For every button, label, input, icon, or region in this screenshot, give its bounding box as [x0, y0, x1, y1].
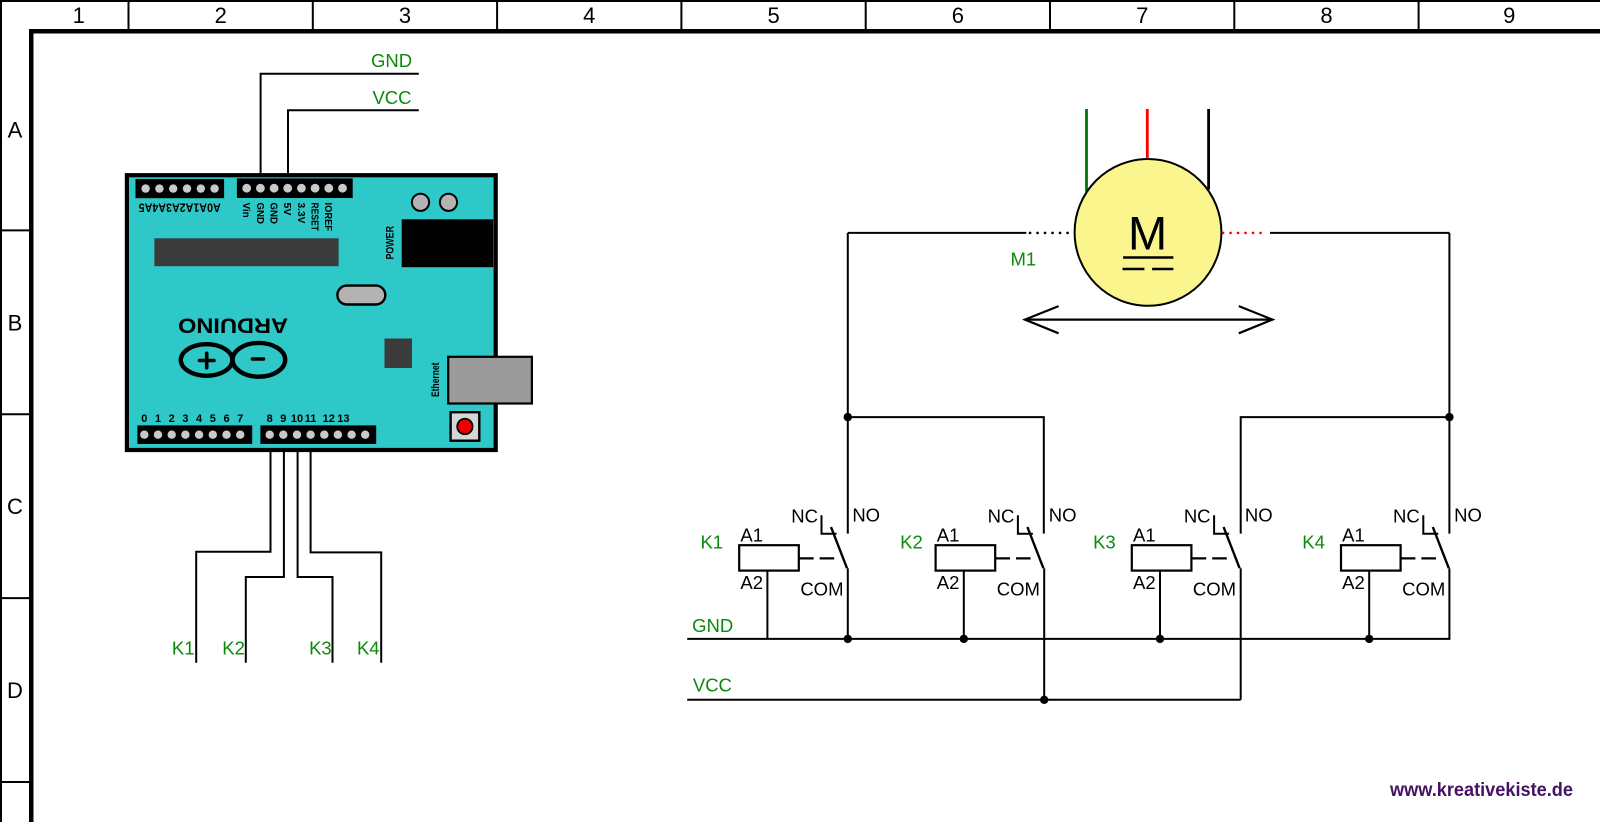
svg-text:M1: M1 [1010, 248, 1036, 269]
Arduino crystal (gray pill) [337, 286, 385, 305]
relay K3 [1093, 505, 1273, 639]
svg-text:D: D [7, 678, 23, 703]
motor underline solid [1123, 256, 1173, 258]
svg-text:NO: NO [1049, 505, 1077, 526]
relay K4 actuator dashed link [1401, 557, 1438, 559]
Arduino infinity logo [181, 343, 285, 377]
K3 COM wire to VCC end [1240, 568, 1242, 700]
svg-text:A2: A2 [740, 572, 763, 593]
svg-text:1: 1 [73, 3, 85, 28]
svg-text:1: 1 [155, 413, 161, 425]
svg-text:NO: NO [1454, 505, 1482, 526]
Arduino indicator pads (2 gray circles) [412, 194, 429, 211]
relay K2 coil [936, 545, 996, 570]
motor underline dashed [1123, 268, 1174, 270]
svg-text:3: 3 [182, 413, 188, 425]
reset button S1 [451, 412, 480, 441]
Arduino socket strip (dark) [154, 238, 338, 266]
svg-text:8: 8 [267, 413, 273, 425]
svg-text:A1: A1 [740, 525, 763, 546]
svg-text:K1: K1 [172, 638, 195, 659]
svg-text:A2: A2 [1342, 572, 1365, 593]
junction K4 A2 on GND [1365, 635, 1373, 643]
junction left [844, 413, 852, 421]
svg-text:13: 13 [337, 413, 349, 425]
svg-text:NC: NC [791, 505, 818, 526]
svg-text:B: B [8, 310, 23, 335]
svg-text:7: 7 [237, 413, 243, 425]
relay K3 switch lever [1224, 527, 1240, 568]
relay K1 coil [739, 545, 799, 570]
svg-text:VCC: VCC [372, 87, 411, 108]
svg-text:COM: COM [800, 579, 843, 600]
ruler row dividers [0, 230, 29, 782]
svg-text:4: 4 [583, 3, 595, 28]
Arduino ICSP block (dark square) [385, 339, 413, 369]
motor M1 circle [1075, 159, 1222, 306]
svg-text:C: C [7, 494, 23, 519]
svg-text:9: 9 [1503, 3, 1515, 28]
svg-text:12: 12 [323, 413, 335, 425]
border frame outer top line [0, 0, 1600, 2]
svg-text:www.kreativekiste.de: www.kreativekiste.de [1389, 779, 1573, 801]
svg-text:COM: COM [1193, 579, 1236, 600]
wire motor right dotted (red) [1223, 232, 1266, 235]
relay K1 actuator dashed link [799, 557, 836, 559]
svg-text:11: 11 [305, 413, 317, 425]
wire GND from Arduino [261, 74, 419, 174]
svg-text:A1: A1 [937, 525, 960, 546]
svg-text:GND: GND [254, 203, 266, 225]
K1 COM wire to GND [847, 568, 849, 639]
relay K2 A2 wire [963, 571, 965, 639]
svg-text:K1: K1 [700, 532, 723, 553]
motor direction arrow [1025, 306, 1273, 333]
wire motor black lead [1207, 109, 1210, 190]
wire motor left [848, 232, 1027, 234]
ruler numbers 1-9 [73, 3, 1516, 28]
junction right [1445, 413, 1453, 421]
svg-text:A2: A2 [937, 572, 960, 593]
svg-text:K3: K3 [1093, 532, 1116, 553]
svg-text:K3: K3 [309, 638, 332, 659]
svg-text:8: 8 [1320, 3, 1332, 28]
relay K2 switch lever [1027, 527, 1043, 568]
svg-text:NC: NC [988, 505, 1015, 526]
relay K2 actuator dashed link [995, 557, 1032, 559]
svg-text:NO: NO [852, 505, 880, 526]
svg-text:5V: 5V [281, 203, 293, 216]
wire VCC from Arduino [288, 110, 419, 174]
svg-text:ARDUINO: ARDUINO [178, 313, 288, 337]
Arduino power pin header [237, 178, 353, 198]
svg-text:A1: A1 [1342, 525, 1365, 546]
relay K1 switch lever [831, 527, 847, 568]
svg-text:K2: K2 [222, 638, 245, 659]
svg-text:POWER: POWER [385, 226, 397, 260]
Ethernet connector (gray) [448, 357, 532, 404]
Arduino digital pin header 0-7 [137, 425, 252, 444]
svg-text:RESET: RESET [309, 203, 321, 232]
digital pin numbers 0-7 [141, 413, 243, 425]
svg-text:A2: A2 [1133, 572, 1156, 593]
relay K2 [900, 505, 1076, 639]
wire motor green lead [1085, 109, 1088, 192]
Arduino power jack (black) [402, 219, 494, 267]
svg-text:K4: K4 [357, 638, 380, 659]
svg-text:0: 0 [141, 413, 147, 425]
svg-text:Ethernet: Ethernet [430, 362, 442, 397]
svg-text:NC: NC [1393, 505, 1420, 526]
svg-text:Vin: Vin [240, 203, 252, 218]
wire pin10 to K3 [298, 450, 333, 663]
svg-text:COM: COM [997, 579, 1040, 600]
wire motor red lead [1146, 109, 1149, 160]
svg-text:GND: GND [268, 203, 280, 225]
ruler column dividers [129, 0, 1419, 29]
relay K1 NC contact [822, 515, 837, 534]
relay K3 NC contact [1214, 515, 1229, 534]
Arduino digital pin header 8-13 [260, 425, 376, 444]
K4 COM wire to GND end [1448, 568, 1450, 639]
wire branch to K3 NO [1241, 417, 1450, 533]
svg-text:4: 4 [196, 413, 203, 425]
relay K2 NC contact [1018, 515, 1033, 534]
svg-text:M: M [1128, 207, 1167, 260]
border frame thick inner frame [29, 29, 1600, 34]
svg-text:2: 2 [215, 3, 227, 28]
wire motor right [1270, 232, 1449, 234]
relay K3 actuator dashed link [1192, 557, 1229, 559]
svg-text:K2: K2 [900, 532, 923, 553]
svg-text:VCC: VCC [693, 674, 732, 695]
svg-text:6: 6 [223, 413, 229, 425]
relay K3 coil [1132, 545, 1192, 570]
GND bus [687, 638, 1450, 640]
wire motor left dotted [1030, 232, 1072, 235]
svg-text:GND: GND [692, 615, 733, 636]
digital pin numbers 8-13 [267, 413, 350, 425]
svg-text:5: 5 [767, 3, 779, 28]
svg-text:NO: NO [1245, 505, 1273, 526]
VCC bus [687, 699, 1240, 701]
relay K1 A2 wire [766, 571, 768, 639]
svg-text:5: 5 [210, 413, 216, 425]
wire branch to K2 NO [848, 417, 1044, 533]
relay K4 [1302, 505, 1482, 639]
relay K4 A2 wire [1368, 571, 1370, 639]
svg-text:A1: A1 [1133, 525, 1156, 546]
wire pin11 to K4 [311, 450, 382, 663]
K2 COM wire to VCC [1043, 568, 1045, 700]
svg-text:IOREF: IOREF [322, 203, 334, 232]
wire motor-left down to K1 NO [847, 233, 849, 534]
svg-text:2: 2 [169, 413, 175, 425]
Arduino analog pin header A0-A5 [136, 179, 225, 198]
svg-text:6: 6 [952, 3, 964, 28]
relay K4 coil [1341, 545, 1401, 570]
svg-text:COM: COM [1402, 579, 1445, 600]
Arduino board U1 [127, 175, 496, 450]
relay K1 [700, 505, 880, 639]
svg-text:A0A1A2A3A4A5: A0A1A2A3A4A5 [138, 200, 221, 212]
relay K4 NC contact [1423, 515, 1438, 534]
wire motor-right down to K4 NO [1448, 233, 1450, 534]
svg-text:7: 7 [1136, 3, 1148, 28]
svg-text:3.3V: 3.3V [295, 203, 307, 224]
relay K4 switch lever [1433, 527, 1449, 568]
wire pin8 to K1 [196, 450, 270, 663]
border frame outer left line [0, 0, 2, 822]
svg-text:GND: GND [371, 50, 412, 71]
power pin labels [240, 203, 334, 232]
wire pin9 to K2 [246, 450, 284, 663]
svg-text:A: A [8, 118, 23, 143]
relay K3 A2 wire [1159, 571, 1161, 639]
svg-text:NC: NC [1184, 505, 1211, 526]
svg-text:9: 9 [280, 413, 286, 425]
ruler letters A-D [7, 118, 23, 703]
junction K2 A2 on GND [960, 635, 968, 643]
svg-text:10: 10 [291, 413, 303, 425]
svg-text:K4: K4 [1302, 532, 1325, 553]
junction K3 A2 on GND [1156, 635, 1164, 643]
svg-text:3: 3 [399, 3, 411, 28]
